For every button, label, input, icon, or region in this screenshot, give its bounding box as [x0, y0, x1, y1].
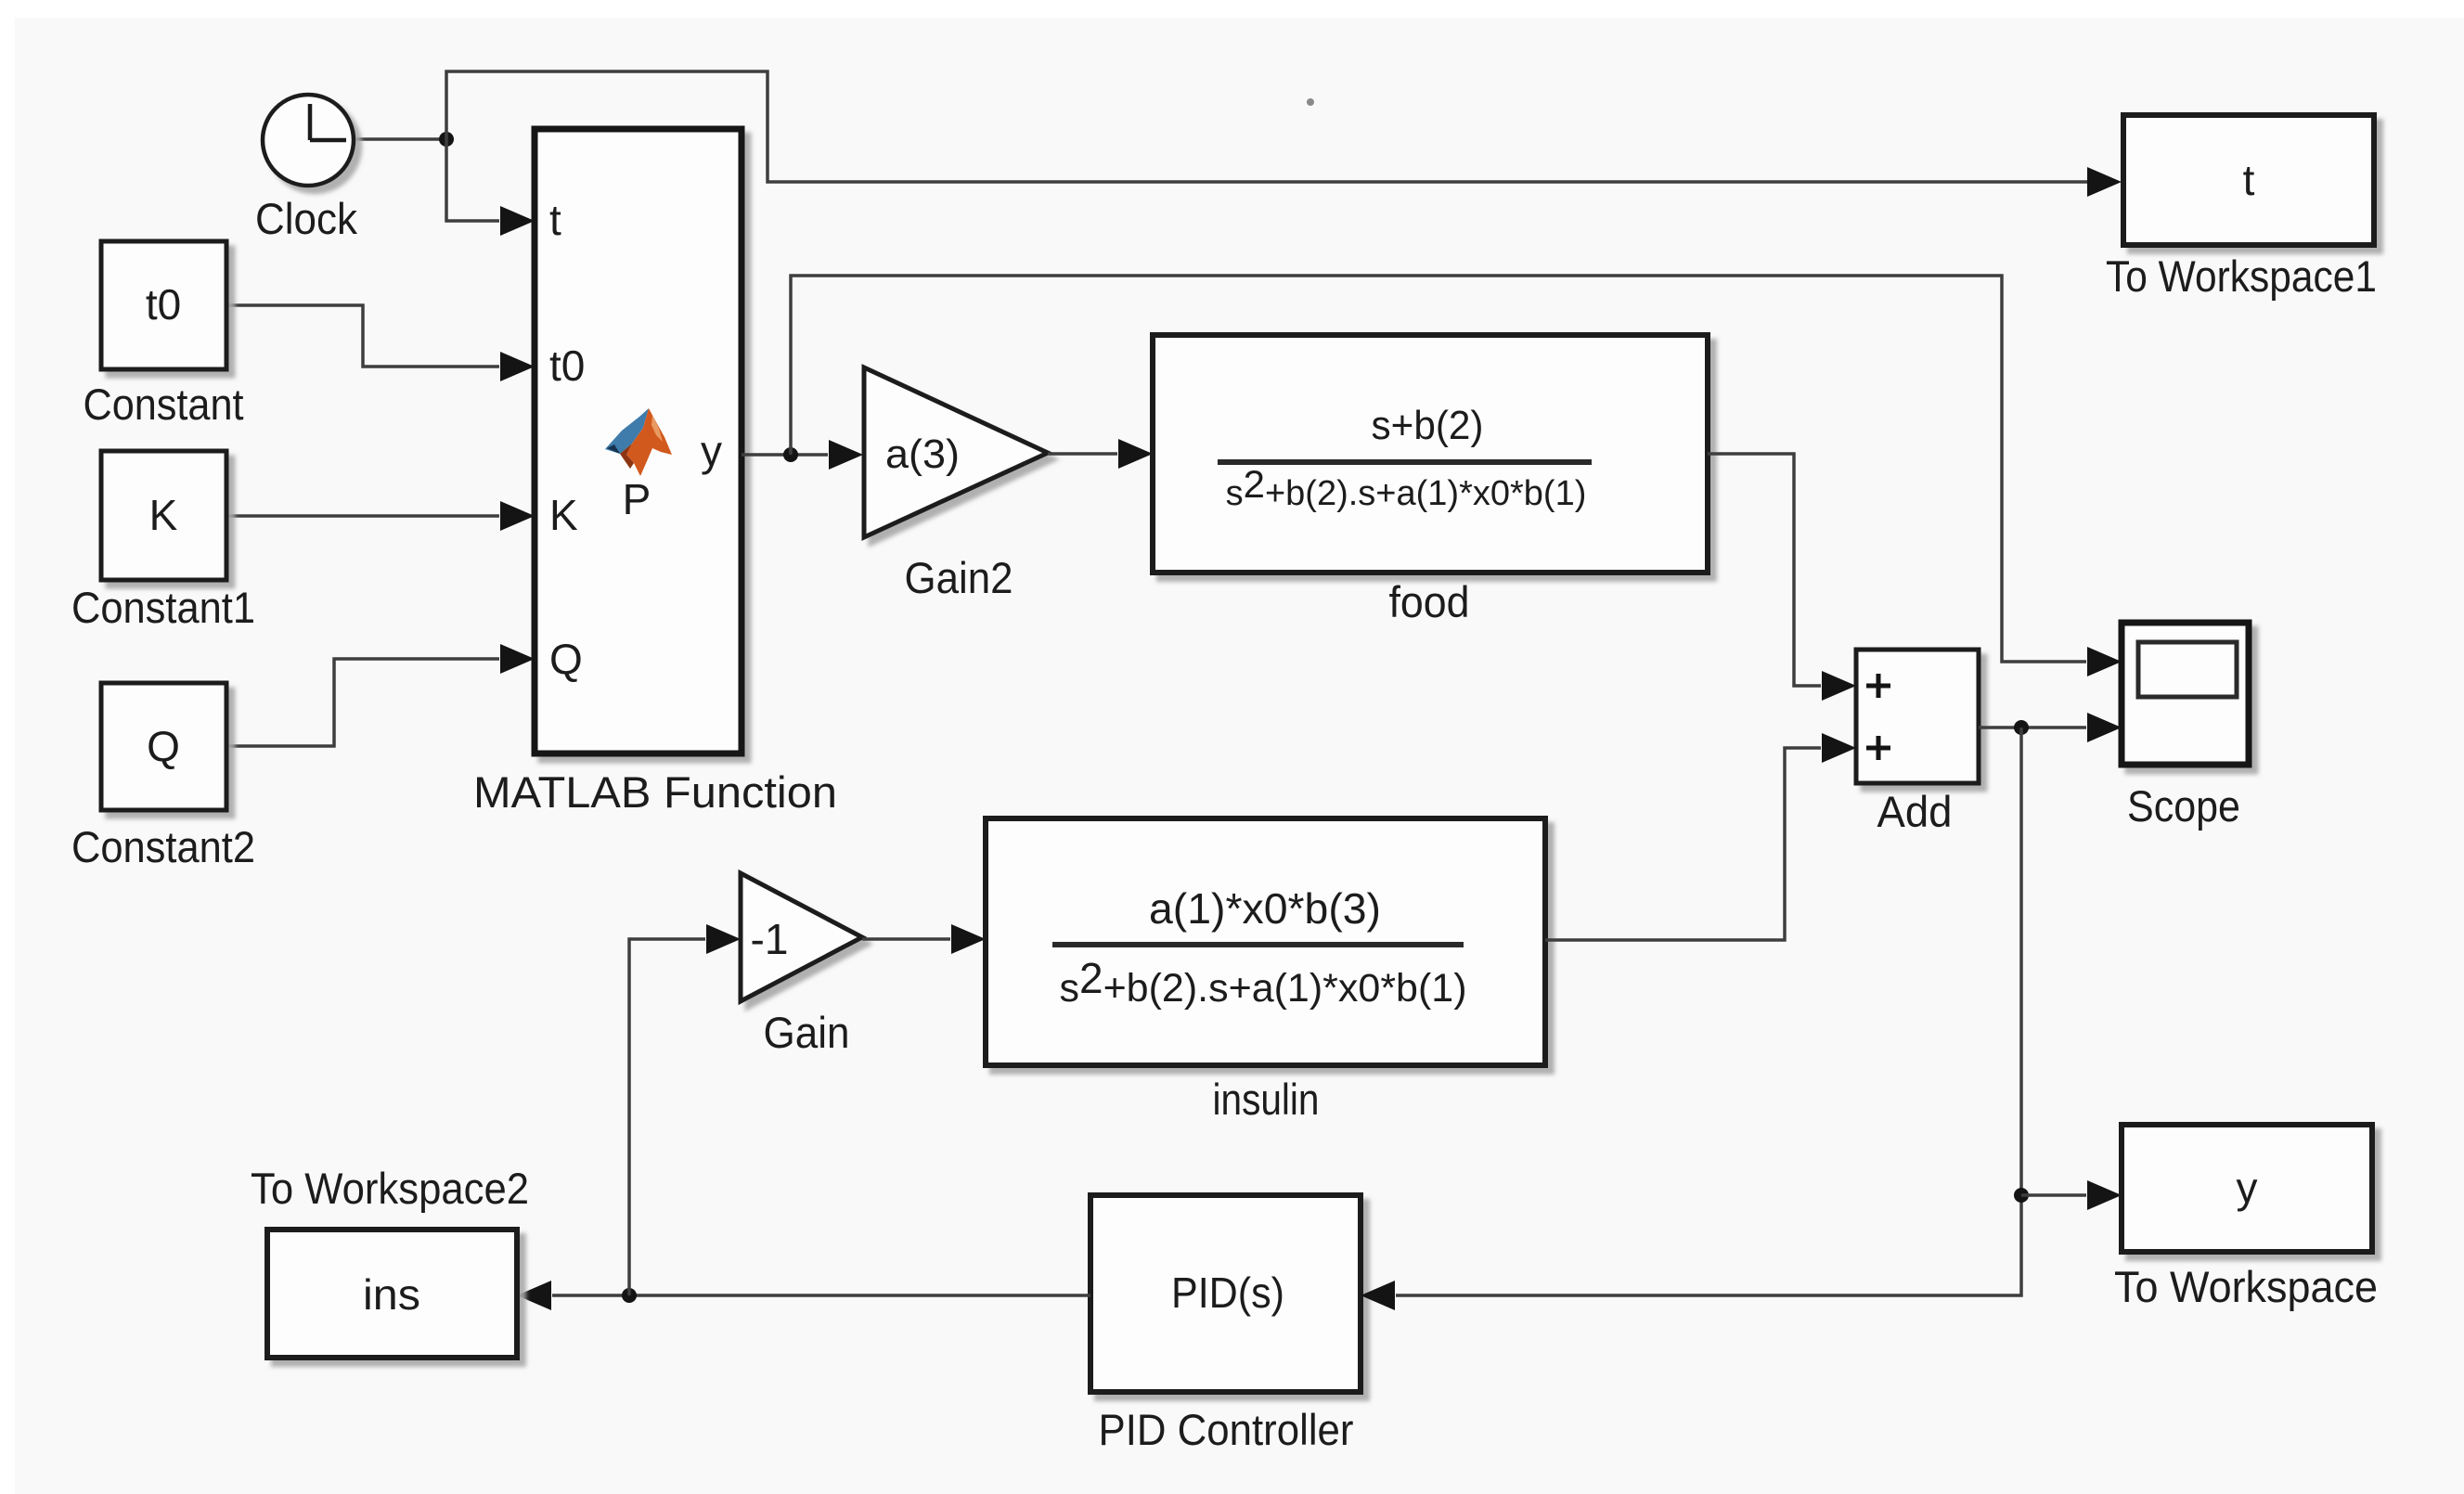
wire insulin to Add input 2 [1545, 733, 1856, 940]
clock C1 [263, 95, 354, 186]
value label t0 [146, 280, 181, 328]
label food [1389, 577, 1470, 626]
label P [623, 475, 651, 523]
wire add junction down to To Workspace and PID [1396, 728, 2021, 1295]
value label ins [363, 1270, 420, 1319]
value label t [2243, 156, 2255, 204]
fraction bar food [1218, 459, 1592, 465]
adder block Add [1856, 650, 1979, 783]
label To Workspace2 [251, 1164, 529, 1213]
stray dot artifact [1307, 98, 1314, 106]
svg-text:a(1)*x0*b(3): a(1)*x0*b(3) [1149, 884, 1381, 933]
svg-text:To Workspace1: To Workspace1 [2106, 251, 2377, 301]
svg-text:food: food [1389, 577, 1470, 626]
wire clock-to-junction [355, 137, 446, 141]
arrow into PID right side [1361, 1281, 1395, 1310]
svg-text:P: P [623, 475, 651, 523]
wire food to Add input 1 [1708, 454, 1856, 701]
constant block K [101, 451, 226, 580]
wire PID output to ins [517, 1281, 1090, 1310]
svg-text:K: K [149, 491, 178, 539]
svg-text:t0: t0 [146, 280, 181, 328]
svg-text:Constant: Constant [84, 380, 244, 429]
wire y output to Gain2 [742, 440, 863, 470]
svg-text:t: t [549, 196, 561, 244]
port label Q [549, 635, 583, 683]
scope block Scope [2122, 623, 2249, 765]
value label a(3) [885, 431, 960, 477]
svg-text:Constant2: Constant2 [71, 822, 255, 871]
node workspace junction [2014, 1188, 2029, 1203]
svg-text:To Workspace: To Workspace [2114, 1262, 2378, 1311]
scope screen [2138, 642, 2237, 697]
svg-text:y: y [701, 427, 722, 475]
node y junction [783, 447, 798, 462]
port label y [701, 427, 722, 475]
fraction bar insulin [1052, 942, 1464, 947]
value label y [2237, 1164, 2258, 1212]
svg-text:Gain2: Gain2 [905, 553, 1013, 602]
wire junction up and across to To Workspace1 [446, 71, 2122, 197]
label MATLAB Function [473, 767, 837, 817]
to workspace block ins [267, 1230, 517, 1358]
svg-text:insulin: insulin [1213, 1075, 1320, 1124]
plus sign input 1 [1866, 674, 1890, 698]
value label PID(s) [1171, 1269, 1284, 1317]
svg-text:PID Controller: PID Controller [1099, 1405, 1354, 1454]
svg-text:K: K [549, 491, 578, 539]
label Constant [84, 380, 244, 429]
node clock junction [439, 132, 454, 147]
value label K [149, 491, 178, 539]
svg-text:s+b(2): s+b(2) [1372, 403, 1484, 448]
gain block Gain [741, 873, 862, 1001]
svg-text:Q: Q [147, 722, 180, 770]
wire Add output to Scope input 2 [1979, 713, 2122, 742]
label Add [1877, 787, 1953, 836]
denominator s2+b(2).s+a(1)*x0*b(1) [1059, 954, 1466, 1011]
MATLAB Function block U1 [535, 129, 742, 753]
label Constant2 [71, 822, 255, 871]
svg-text:Q: Q [549, 635, 583, 683]
label Gain2 [905, 553, 1013, 602]
to workspace block t [2123, 115, 2374, 245]
svg-text:y: y [2237, 1164, 2258, 1212]
label To Workspace1 [2106, 251, 2377, 301]
port label t [549, 196, 561, 244]
node add output junction [2014, 720, 2029, 735]
svg-text:PID(s): PID(s) [1171, 1269, 1284, 1317]
port label K [549, 491, 578, 539]
wire Gain2 to food [1048, 439, 1153, 469]
svg-text:t: t [2243, 156, 2255, 204]
wire K constant to K port [226, 501, 535, 531]
constant block t0 [101, 241, 226, 369]
to workspace block y [2122, 1125, 2372, 1252]
wire Gain to insulin [862, 924, 986, 954]
svg-text:MATLAB Function: MATLAB Function [473, 767, 837, 817]
svg-text:a(3): a(3) [885, 431, 960, 477]
label insulin [1213, 1075, 1320, 1124]
label PID Controller [1099, 1405, 1354, 1454]
denominator s2+b(2).s+a(1)*x0*b(1) [1226, 462, 1587, 513]
gain block Gain2 [864, 367, 1048, 537]
PID controller block [1090, 1195, 1361, 1392]
wire junction to To Workspace [2021, 1180, 2122, 1210]
constant block Q [101, 683, 226, 810]
port label t0 [549, 341, 585, 390]
MATLAB membrane logo [605, 408, 672, 476]
plus sign input 2 [1866, 736, 1890, 760]
svg-text:Gain: Gain [764, 1008, 850, 1057]
label Gain [764, 1008, 850, 1057]
label To Workspace [2114, 1262, 2378, 1311]
wire junction down to t port [446, 139, 535, 236]
value label -1 [751, 915, 789, 963]
label Scope [2127, 781, 2240, 831]
svg-text:To Workspace2: To Workspace2 [251, 1164, 529, 1213]
svg-text:-1: -1 [751, 915, 789, 963]
svg-text:Constant1: Constant1 [71, 583, 255, 632]
label Constant1 [71, 583, 255, 632]
transfer fcn block food [1153, 335, 1708, 573]
svg-text:Clock: Clock [255, 194, 357, 243]
wire Q constant to Q port [226, 644, 535, 746]
svg-text:Scope: Scope [2127, 781, 2240, 831]
node gain feed junction [622, 1288, 637, 1303]
svg-text:Add: Add [1877, 787, 1953, 836]
wire t0 constant to t0 port [226, 305, 535, 381]
wire y branch to Scope input 1 [791, 276, 2122, 676]
label Clock [255, 194, 357, 243]
numerator s+b(2) [1372, 403, 1484, 448]
svg-text:t0: t0 [549, 341, 585, 390]
wire junction up to Gain input [629, 924, 741, 1295]
svg-text:ins: ins [363, 1270, 420, 1319]
numerator a(1)*x0*b(3) [1149, 884, 1381, 933]
value label Q [147, 722, 180, 770]
transfer fcn block insulin [986, 818, 1545, 1065]
